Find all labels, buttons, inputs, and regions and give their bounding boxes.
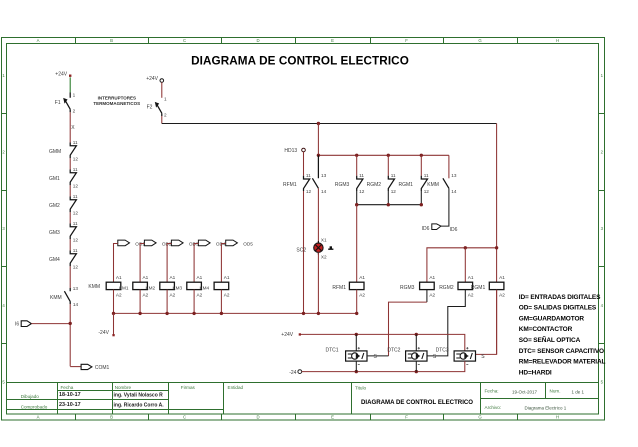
svg-text:GM=GUARDAMOTOR: GM=GUARDAMOTOR [519, 315, 585, 322]
node +24V terminal (sensor rail) [281, 332, 301, 338]
wire to lamp SC2 [317, 188, 319, 242]
svg-text:KMM: KMM [50, 295, 62, 301]
junction bottom bus / KM4 [192, 312, 195, 315]
wire RGM3 A2 to DTC1 S [426, 290, 428, 303]
junction holding rail / RGM1 contact [420, 154, 423, 157]
svg-text:H: H [556, 38, 559, 43]
svg-text:23-10-17: 23-10-17 [59, 402, 81, 408]
svg-text:Entidad: Entidad [228, 385, 244, 390]
contact GMM (NC 11-12) [49, 140, 78, 162]
contact KMM (NO 13-14, left chain) [50, 286, 79, 307]
tag COM1 [81, 364, 109, 371]
svg-text:RGM1: RGM1 [399, 182, 414, 188]
svg-text:Titulo: Titulo [355, 385, 367, 390]
svg-text:ID= ENTRADAS DIGITALES: ID= ENTRADAS DIGITALES [519, 294, 601, 301]
svg-text:RFM1: RFM1 [332, 285, 346, 291]
svg-text:HD13: HD13 [284, 148, 297, 154]
svg-text:+24V: +24V [55, 71, 67, 77]
svg-text:SC2: SC2 [296, 248, 306, 254]
svg-text:A1: A1 [143, 275, 149, 280]
sensor DTC3 [436, 347, 486, 364]
junction bottom bus / SC2 branch [317, 312, 320, 315]
tag OD2 [144, 240, 156, 246]
svg-text:11: 11 [306, 173, 311, 178]
svg-text:GM1: GM1 [49, 176, 60, 182]
wire -24V stub [113, 313, 115, 334]
wire OD3 to KM3 coil [167, 244, 171, 283]
junction feed rail / RGM2 coil [464, 246, 467, 249]
svg-text:E: E [331, 415, 334, 420]
svg-text:C: C [183, 415, 186, 420]
svg-text:DIAGRAMA DE CONTROL ELECTRICO: DIAGRAMA DE CONTROL ELECTRICO [191, 55, 409, 68]
svg-text:12: 12 [73, 265, 79, 270]
junction bottom bus / KM2 [138, 312, 141, 315]
wire RGM2 feed drop [464, 248, 466, 282]
svg-text:12: 12 [306, 189, 312, 194]
svg-text:A1: A1 [197, 275, 203, 280]
svg-text:KM1: KM1 [119, 286, 129, 291]
svg-text:ing. Ricardo Corro A.: ing. Ricardo Corro A. [114, 402, 165, 408]
svg-text:GM4: GM4 [49, 257, 60, 263]
junction -24 rail / DTC1 [355, 370, 358, 373]
wire OD1 to KM1 coil [114, 244, 118, 283]
wire RGM1 A2 to DTC3 S [476, 290, 497, 355]
TITLE BLOCK [7, 383, 599, 415]
wire -24 sensor rail [302, 361, 465, 372]
svg-text:KM4: KM4 [200, 286, 210, 291]
wire lamp to bottom bus [317, 253, 319, 314]
contact GM1 (NC 11-12) [49, 167, 78, 189]
svg-text:Archivo:: Archivo: [485, 405, 502, 410]
svg-text:11: 11 [73, 167, 78, 172]
svg-text:A1: A1 [224, 275, 230, 280]
contact RGM1 (NC 11-12) [399, 155, 430, 194]
coil RGM1 [471, 275, 505, 297]
junction bottom bus / RFM1 coil [355, 312, 358, 315]
wire +24V to F1 pin 1 (green segment) [69, 77, 71, 92]
svg-text:D: D [256, 415, 259, 420]
svg-text:KM=CONTACTOR: KM=CONTACTOR [519, 326, 573, 333]
svg-text:+24V: +24V [146, 76, 158, 82]
svg-text:11: 11 [73, 194, 78, 199]
wire RGM coil feed rail [427, 248, 497, 282]
svg-text:RM=RELEVADOR MATERIAL: RM=RELEVADOR MATERIAL [519, 359, 606, 366]
label interruptores termomagneticos [93, 95, 140, 106]
junction bottom bus / KM1 [112, 312, 115, 315]
svg-text:D: D [256, 38, 259, 43]
svg-text:11: 11 [424, 173, 429, 178]
svg-text:A2: A2 [224, 292, 230, 297]
wire KM5 A2 drop [220, 290, 222, 314]
svg-text:+24V: +24V [281, 332, 293, 338]
svg-text:E: E [331, 38, 334, 43]
svg-text:DIAGRAMA DE CONTROL ELECTRICO: DIAGRAMA DE CONTROL ELECTRICO [361, 399, 473, 406]
wire RFM1 A2 to bottom bus [356, 290, 358, 314]
svg-text:RFM1: RFM1 [283, 182, 297, 188]
svg-text:14: 14 [73, 302, 79, 307]
svg-text:COM1: COM1 [95, 365, 110, 371]
wire [69, 158, 71, 169]
junction +24V rail / DTC1 [355, 333, 358, 336]
svg-text:KMM: KMM [88, 284, 100, 290]
wire KM2 A2 drop [139, 290, 141, 314]
junction bottom bus / KM5 [220, 312, 223, 315]
svg-text:A1: A1 [116, 275, 122, 280]
svg-text:C: C [183, 38, 186, 43]
wire F2 down to bus corner [161, 116, 163, 124]
wire F1 to GMM contact [69, 112, 71, 142]
wire [161, 82, 163, 98]
junction -24 rail / DTC2 [415, 370, 418, 373]
svg-text:12: 12 [359, 189, 365, 194]
svg-text:F2: F2 [147, 104, 153, 110]
svg-text:KM3: KM3 [173, 286, 183, 291]
coil RGM3 [400, 275, 436, 297]
svg-text:12: 12 [424, 189, 430, 194]
svg-text:12: 12 [73, 184, 79, 189]
svg-text:F: F [405, 38, 408, 43]
sensor DTC1 [326, 347, 378, 364]
coil RFM1 [332, 275, 365, 297]
contact GM4 (NC 11-12) [49, 248, 78, 270]
svg-text:2: 2 [73, 108, 76, 113]
svg-text:A2: A2 [116, 292, 122, 297]
svg-text:A2: A2 [499, 292, 505, 297]
junction seal link / RGM3 contact [355, 203, 358, 206]
node HD13 terminal [284, 148, 305, 154]
svg-text:A2: A2 [197, 292, 203, 297]
wire to COM1 [70, 366, 81, 368]
svg-text:1: 1 [164, 97, 167, 102]
wire RGM2 A2 to DTC2 S [427, 290, 465, 356]
svg-text:B: B [110, 38, 113, 43]
wire KMM 14 to ID6 [441, 188, 449, 226]
wire I6 to node [31, 323, 70, 325]
value labels OD1-OD5 [135, 242, 253, 247]
node -24V terminal [98, 330, 114, 336]
svg-text:Firmas: Firmas [181, 385, 196, 390]
svg-text:I6: I6 [15, 322, 19, 328]
svg-text:14: 14 [451, 189, 457, 194]
wire [69, 266, 71, 288]
wire OD4 to KM4 coil [194, 244, 198, 283]
node -24 terminal (sensor rail) [289, 370, 301, 376]
junction seal link / RGM2 contact [387, 203, 390, 206]
svg-text:OD= SALIDAS DIGITALES: OD= SALIDAS DIGITALES [519, 305, 597, 312]
svg-text:HD=HARDI: HD=HARDI [519, 369, 552, 376]
svg-text:F: F [405, 415, 408, 420]
contact KMM (NO 13-14, seal-in right) [427, 155, 457, 194]
wire DTC1 minus stub [355, 361, 357, 372]
wire branch down to holding rail [317, 124, 319, 156]
svg-text:11: 11 [359, 173, 364, 178]
svg-text:ing. Vytali Nolasco R: ing. Vytali Nolasco R [114, 392, 164, 398]
lamp SC2 [296, 238, 333, 260]
svg-text:RGM2: RGM2 [439, 285, 454, 291]
svg-text:11: 11 [391, 173, 396, 178]
svg-text:X1: X1 [321, 238, 327, 243]
svg-text:SO= SEÑAL OPTICA: SO= SEÑAL OPTICA [519, 335, 581, 344]
contact GM2 (NC 11-12) [49, 194, 78, 216]
svg-text:11: 11 [73, 221, 78, 226]
junction holding rail / RGM2 contact [387, 154, 390, 157]
tag ID6 output [422, 224, 458, 233]
svg-text:19-Oct-2017: 19-Oct-2017 [512, 389, 538, 394]
svg-text:DTC1: DTC1 [326, 347, 339, 353]
coil KM5 [214, 275, 230, 297]
wire OD2 to KM2 coil [140, 244, 144, 283]
node +24V supply terminal (F2 branch) [146, 76, 163, 82]
junction feed rail / RGM1 coil [495, 246, 498, 249]
coil KMM/KM1 [88, 275, 129, 297]
svg-text:B: B [110, 415, 113, 420]
junction seal link / RGM1 contact [420, 203, 423, 206]
svg-text:DTC3: DTC3 [436, 347, 449, 353]
wire seal-in bottom link (black) [357, 191, 422, 205]
wire HD13 down [303, 152, 305, 176]
svg-text:TERMOMAGNETICOS: TERMOMAGNETICOS [93, 101, 140, 106]
svg-text:13: 13 [73, 286, 79, 291]
node +24V supply terminal (F1 branch) [55, 71, 71, 77]
svg-text:RGM2: RGM2 [367, 182, 382, 188]
junction holding rail / RGM3 contact [355, 154, 358, 157]
coil RGM2 [439, 275, 474, 297]
svg-text:13: 13 [451, 173, 457, 178]
svg-text:A2: A2 [170, 292, 176, 297]
wire +24V sensor rail [301, 334, 465, 351]
svg-text:A1: A1 [359, 275, 365, 280]
tag OD1 [118, 240, 130, 246]
svg-text:F1: F1 [55, 100, 61, 106]
svg-text:A: A [37, 415, 40, 420]
svg-text:GM2: GM2 [49, 203, 60, 209]
svg-text:RGM3: RGM3 [400, 285, 415, 291]
wire KMM 14 down to I6 node [69, 304, 71, 366]
svg-text:A2: A2 [468, 292, 474, 297]
contact GM3 (NC 11-12) [49, 221, 78, 243]
tag I6 input [15, 321, 31, 328]
wire [69, 185, 71, 196]
wire DTC2 plus stub [415, 334, 417, 351]
svg-text:11: 11 [73, 140, 78, 145]
svg-text:GM3: GM3 [49, 230, 60, 236]
tag OD5 [226, 240, 238, 246]
wire bus drop right side [496, 124, 498, 355]
svg-text:13: 13 [321, 173, 327, 178]
tag OD3 [171, 240, 183, 246]
svg-text:ID6: ID6 [422, 226, 430, 232]
junction bottom bus / KM3 [165, 312, 168, 315]
wire OD5 to KM5 coil [221, 244, 225, 283]
svg-text:11: 11 [73, 248, 78, 253]
svg-text:KMM: KMM [427, 182, 439, 188]
svg-text:12: 12 [73, 238, 79, 243]
LEGEND [519, 294, 606, 377]
svg-text:A1: A1 [429, 275, 435, 280]
svg-text:Diagrama Electrico 1: Diagrama Electrico 1 [525, 405, 567, 410]
wire RFM1 12 down to bottom bus [303, 191, 305, 313]
svg-text:A2: A2 [429, 292, 435, 297]
wire DTC2 minus stub [415, 361, 417, 372]
wire KM4 A2 drop [193, 290, 195, 314]
wire KM1 A2 drop [113, 290, 115, 314]
tag OD4 [198, 240, 210, 246]
wire to RFM1 coil A1 [356, 205, 358, 283]
contact RGM2 (NC 11-12) [367, 155, 397, 194]
svg-text:ID6: ID6 [450, 227, 458, 233]
svg-text:RGM1: RGM1 [471, 285, 486, 291]
svg-text:A2: A2 [143, 292, 149, 297]
svg-text:12: 12 [73, 157, 79, 162]
svg-text:H: H [556, 415, 559, 420]
svg-text:INTERRUPTORES: INTERRUPTORES [98, 95, 136, 100]
junction +24V rail / DTC2 [415, 333, 418, 336]
wire bottom -24V bus [114, 312, 357, 314]
wire DTC1 plus stub [355, 334, 357, 351]
svg-text:A: A [37, 38, 40, 43]
svg-text:14: 14 [321, 189, 327, 194]
wire [69, 212, 71, 223]
svg-text:A1: A1 [170, 275, 176, 280]
coil KM2 [133, 275, 156, 297]
wire top bus (black) [162, 123, 497, 125]
svg-text:12: 12 [73, 211, 79, 216]
svg-text:Comprobado: Comprobado [21, 405, 48, 410]
svg-text:Nombre: Nombre [115, 385, 132, 390]
svg-text:X2: X2 [321, 255, 327, 260]
contact RFM1 second pole (NO 13-14) [312, 155, 326, 194]
svg-text:A1: A1 [468, 275, 474, 280]
svg-text:KM2: KM2 [146, 286, 156, 291]
breaker F2 [147, 102, 162, 116]
svg-text:-24: -24 [289, 370, 296, 376]
wire KM3 A2 drop [166, 290, 168, 314]
node junction I6 [69, 322, 72, 325]
node junction bus/SC2 branch [317, 122, 320, 125]
svg-text:12: 12 [391, 189, 397, 194]
svg-text:A1: A1 [499, 275, 505, 280]
svg-text:Fecha:: Fecha: [485, 389, 499, 394]
svg-text:2: 2 [164, 112, 167, 117]
wire [69, 239, 71, 250]
svg-text:DTC= SENSOR CAPACITIVO: DTC= SENSOR CAPACITIVO [519, 348, 604, 355]
svg-text:A2: A2 [359, 292, 365, 297]
contact RGM3 (NC 11-12) [335, 155, 365, 194]
svg-text:Num.: Num. [550, 389, 561, 394]
svg-text:18-10-17: 18-10-17 [59, 392, 81, 398]
breaker F1 [55, 93, 70, 113]
svg-text:Dibujado: Dibujado [21, 394, 40, 399]
svg-text:OD5: OD5 [243, 242, 253, 247]
sensor DTC2 [387, 347, 437, 364]
wire holding rail [318, 154, 449, 156]
coil KM4 [187, 275, 210, 297]
junction holding rail / bus drop [317, 154, 320, 157]
svg-text:RGM3: RGM3 [335, 182, 350, 188]
svg-text:1: 1 [73, 93, 76, 98]
contact RFM1 (NC 11-12) [283, 173, 312, 194]
svg-text:Fecha: Fecha [61, 385, 74, 390]
svg-text:1 de 1: 1 de 1 [572, 389, 585, 394]
svg-text:-24V: -24V [98, 330, 109, 336]
svg-text:GMM: GMM [49, 149, 61, 155]
junction bottom bus / HD13 branch [302, 312, 305, 315]
svg-text:DTC2: DTC2 [387, 347, 400, 353]
coil KM3 [160, 275, 183, 297]
